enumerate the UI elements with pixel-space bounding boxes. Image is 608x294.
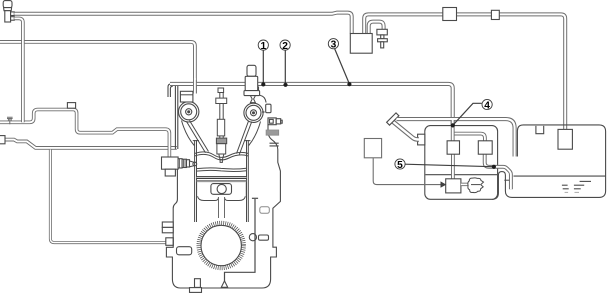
- engine mount rects: [162, 222, 173, 227]
- canister pipe left chamber to purge box: [451, 154, 455, 179]
- side cover gray rounded rect: [260, 207, 270, 214]
- arrow line from box B4 to purge box: [373, 158, 440, 185]
- exhaust flange (gray): [266, 130, 279, 135]
- svg-text:3: 3: [331, 40, 337, 51]
- hose H7: valve cover top to canister (with corner down): [170, 84, 453, 126]
- narrow pipe end fitting: [166, 238, 174, 246]
- valve tip: [219, 154, 224, 162]
- box B1 (VSV): [350, 34, 372, 54]
- separator blob: [468, 178, 484, 193]
- left pushrod diagonals: [187, 121, 209, 153]
- oil filler circle: [249, 234, 256, 241]
- narrow pipe from PipeB down to engine bottom: [50, 150, 166, 243]
- fuel pump on cover (drawn over hose H7): [244, 65, 260, 95]
- head left double wall: [175, 86, 177, 149]
- fuel level line: [514, 175, 606, 177]
- hose H9: air inlet to tank top: [397, 119, 515, 156]
- svg-text:1: 1: [260, 41, 266, 52]
- cylinder walls: [195, 140, 249, 222]
- right rocker circle: [244, 103, 263, 122]
- canister outline: [425, 126, 498, 200]
- leader line 2: [284, 50, 286, 84]
- left rocker circle: [179, 102, 199, 122]
- bleeder fitting on left pipe: [7, 117, 13, 124]
- piston crown: [197, 168, 247, 172]
- wrist pin boss: [211, 184, 232, 195]
- piston ring band (dark): [197, 176, 247, 179]
- hose H6/PipeA: left edge pipe with hop, T, up to carburetor: [0, 110, 169, 159]
- dot 2: [283, 83, 287, 87]
- engine foot tab: [195, 279, 201, 288]
- callout circle 4: [482, 99, 492, 109]
- pipe fitting at left edge on PipeB: [0, 136, 5, 144]
- svg-text:4: 4: [484, 100, 490, 111]
- hose H10: right chamber to tank inner pipe: [485, 154, 511, 190]
- dipstick with drain line: [225, 199, 256, 281]
- engine block outline: [166, 84, 280, 288]
- callout circle 2: [280, 40, 290, 50]
- carburetor stub threads: [179, 159, 185, 168]
- hose H8 redraw over H7: vertical into cover: [193, 78, 197, 94]
- svg-text:2: 2: [282, 41, 288, 52]
- valve lifter cylinder: [217, 119, 224, 136]
- piston ring groove: [197, 180, 247, 181]
- check valve CV: [377, 29, 387, 48]
- fuel sender unit: [558, 129, 572, 149]
- tick on tank pipe: [504, 179, 509, 181]
- hose inlet block on cover: [180, 91, 193, 102]
- canister right chamber box: [478, 141, 492, 154]
- flywheel teeth ring: [199, 223, 244, 268]
- head wing curves: [182, 121, 261, 146]
- canister divider line: [425, 174, 497, 176]
- canister pipe from top dot to left chamber: [451, 120, 455, 141]
- carburetor assembly: [162, 157, 197, 176]
- inline box B3 on hose H2: [491, 10, 499, 19]
- arrow head: [441, 181, 447, 187]
- connecting rod: [219, 197, 225, 218]
- callout circle 1: [258, 40, 268, 50]
- leader line 5: [405, 164, 493, 167]
- wrist pin: [217, 184, 226, 193]
- callout circle 5: [395, 159, 405, 169]
- valve V1 body: [3, 1, 14, 22]
- piston skirt bottom arcs: [198, 196, 246, 200]
- valve spring retainer (gray): [216, 138, 226, 144]
- bracket right of pump: [266, 104, 283, 125]
- bump fitting on PipeA: [67, 103, 75, 109]
- dot 4: [451, 123, 455, 127]
- fuel tank outline with hump to canister: [492, 125, 606, 199]
- pump bellows: [250, 96, 255, 103]
- exhaust stub lines: [270, 143, 279, 146]
- canister branch pipe to right chamber: [453, 134, 485, 141]
- hose H5: valve lower stub down: [14, 18, 23, 122]
- valve washer: [216, 98, 227, 103]
- flywheel inner circle: [201, 225, 241, 265]
- angled air inlet pipe (diagonal, double line): [393, 122, 419, 140]
- hose H3: box B1 to check valve CV: [369, 22, 384, 34]
- hose PipeB: left edge to carburetor: [5, 140, 177, 148]
- canister left chamber box: [447, 141, 459, 154]
- dot 5: [492, 165, 496, 169]
- leader line 1: [262, 50, 264, 83]
- hose H2: box B1 to fuel tank sender: [364, 14, 565, 130]
- canister purge box: [446, 179, 461, 193]
- dot 1: [261, 82, 265, 86]
- tank vent notch: [536, 126, 544, 134]
- dot 3: [347, 82, 351, 86]
- inline box B2 on hose H2: [443, 8, 457, 21]
- leader line 3: [335, 48, 350, 83]
- hose H1: valve upper stub to box B1: [14, 13, 351, 34]
- hose H4: from left edge down into valve cover: [0, 42, 195, 94]
- valve guide: [217, 144, 226, 154]
- leader line 4: [453, 103, 482, 125]
- center valve stem: [220, 89, 223, 139]
- crankcase rounded rect: [177, 247, 192, 255]
- combustion dome: [195, 152, 249, 160]
- svg-text:5: 5: [397, 160, 403, 171]
- angled cut-end piece: [387, 113, 399, 125]
- engine foot base: [190, 288, 202, 293]
- cylinder wall top ticks: [193, 140, 251, 142]
- canister left inlet fitting: [418, 134, 425, 145]
- right pushrod diagonals: [237, 121, 252, 155]
- valve stem top nut: [218, 88, 224, 93]
- oil filler rect: [259, 235, 269, 240]
- box B4 (filter): [364, 139, 381, 158]
- piston skirt: [197, 183, 247, 197]
- callout circle 3: [328, 39, 338, 49]
- fuel level marks: [562, 181, 591, 188]
- drain plug triangle: [221, 281, 227, 287]
- pipe purge box to separator: [461, 183, 469, 186]
